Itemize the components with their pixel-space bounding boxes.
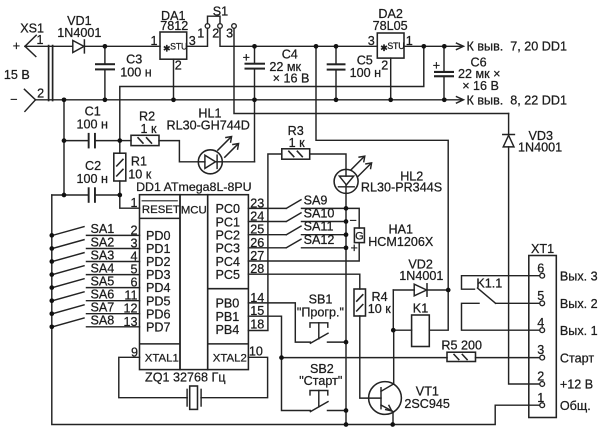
svg-text:SA11: SA11 [304, 220, 334, 234]
label R3 [288, 124, 306, 150]
svg-text:PD5: PD5 [146, 294, 171, 308]
label C2 [77, 159, 109, 186]
svg-text:1: 1 [406, 34, 413, 48]
voltage regulator DA2 78L05 [377, 33, 404, 58]
label SB1 Progr [297, 293, 344, 320]
switch S1 contacts [205, 24, 236, 29]
XT1 terminal labels [560, 269, 598, 413]
svg-text:28: 28 [250, 262, 264, 276]
wire pin 18 up long vertical to R3 [248, 154, 281, 331]
label R4 [368, 290, 392, 316]
relay contact K1.1 pin 6 wire [462, 276, 540, 290]
svg-text:2: 2 [381, 59, 388, 73]
label DD1 ATmega8L-8PU [136, 180, 251, 194]
svg-text:1N4001: 1N4001 [57, 26, 101, 40]
wire C2 line from SA bus corner to RESET node [52, 194, 120, 196]
wire XT1 pin 5 [496, 302, 540, 304]
junction dots ground rail [62, 97, 447, 102]
label VT1 2SC945 [404, 384, 450, 411]
label R5 200 [441, 339, 482, 353]
svg-text:C3: C3 [126, 53, 142, 67]
svg-text:ZQ1 32768 Гц: ZQ1 32768 Гц [145, 371, 226, 385]
label SB2 Start [299, 362, 342, 388]
terminal block XT1 [529, 256, 557, 418]
wire C4 vertical and down to HL1 cathode [254, 46, 256, 162]
svg-text:PD7: PD7 [146, 320, 171, 334]
resistor R1 10k [114, 153, 126, 181]
switch SA2 [53, 240, 140, 249]
svg-text:2: 2 [37, 87, 44, 101]
crystal ZQ1 32768 Hz [187, 386, 201, 409]
svg-text:2: 2 [537, 370, 544, 384]
button SB1 actuator [310, 323, 328, 339]
svg-text:K1: K1 [413, 302, 428, 316]
button SB2 wiring from pin 15 [248, 316, 346, 411]
wire VT1 emitter to ground return [392, 412, 394, 425]
svg-text:RL30-GH744D: RL30-GH744D [167, 118, 250, 132]
svg-text:4: 4 [130, 250, 137, 264]
wire S1 contact 3 down and right to VD3 [234, 28, 509, 113]
svg-text:11: 11 [124, 289, 137, 303]
svg-text:100 н: 100 н [350, 66, 382, 80]
switch SA11 pin 25 [248, 226, 346, 235]
junction dot start line [279, 355, 284, 360]
svg-text:× 16 В: × 16 В [462, 79, 499, 93]
label C6 [433, 56, 501, 94]
LED HL2 emission arrows [351, 156, 372, 177]
svg-text:4: 4 [537, 316, 544, 330]
svg-text:PB0: PB0 [216, 297, 240, 311]
label S1 [197, 5, 233, 41]
wire +5V rail DA2 pin 1 to arrow K vyv 7,20 [404, 43, 464, 49]
label R1 [128, 155, 152, 182]
wire +12V feed from rail down at x=316 right to K1/VD2 [316, 46, 448, 290]
svg-text:3: 3 [189, 34, 196, 48]
svg-text:26: 26 [250, 236, 264, 250]
junction dots SA bus [49, 233, 54, 329]
svg-text:1: 1 [537, 391, 544, 405]
wire +5V sub-line from rail down at x=423.8 left to R1/R2 vertical [120, 46, 424, 140]
svg-text:10 к: 10 к [368, 302, 392, 316]
svg-text:XTAL1: XTAL1 [145, 353, 179, 365]
svg-text:1 к: 1 к [289, 136, 306, 150]
label C5 [350, 54, 382, 81]
svg-text:C2: C2 [85, 159, 101, 173]
label VD2 [399, 257, 443, 283]
svg-text:SA1: SA1 [91, 222, 115, 236]
svg-text:7812: 7812 [160, 19, 188, 33]
svg-text:HCM1206X: HCM1206X [368, 235, 434, 249]
wire R3 to HL2 anode [310, 154, 346, 169]
wire R1 stubs [119, 141, 121, 195]
wire DA2 pin 2 to ground [390, 58, 392, 100]
switch SA4 [53, 266, 140, 275]
svg-text:PD4: PD4 [146, 281, 171, 295]
svg-text:SA12: SA12 [304, 233, 335, 247]
wire SA common bus and bottom ground return to XT1 pin 1 [52, 195, 540, 425]
svg-text:Вых. 1: Вых. 1 [560, 324, 598, 338]
svg-text:6: 6 [537, 261, 544, 275]
svg-text:R5 200: R5 200 [441, 339, 482, 353]
svg-text:PC2: PC2 [216, 229, 241, 243]
svg-text:К выв. 8, 22 DD1: К выв. 8, 22 DD1 [467, 93, 567, 107]
junction dots C1 C2 R1 nodes [62, 138, 123, 197]
buzzer HA1 HCM1206X [354, 228, 364, 243]
wire pin 27 to HA1 plus terminal [248, 243, 359, 261]
label DA2 78L05 [368, 7, 413, 73]
svg-text:1: 1 [197, 26, 204, 40]
svg-text:2: 2 [212, 26, 219, 40]
svg-text:SA4: SA4 [91, 261, 115, 275]
wire +12V input from XS1 pin 1 to VD1 and DA1 pin 1 [25, 45, 160, 47]
label K vyv 7 20 DD1 [467, 40, 567, 54]
svg-text:−: − [10, 93, 17, 107]
svg-text:23: 23 [250, 196, 264, 210]
svg-text:× 16 В: × 16 В [273, 72, 310, 86]
switch SA12 pin 26 [248, 239, 346, 248]
svg-text:9: 9 [131, 345, 138, 359]
svg-text:+: + [243, 50, 250, 64]
svg-text:5: 5 [537, 289, 544, 303]
svg-text:1: 1 [130, 196, 137, 210]
junction dots HL2 bus [344, 206, 349, 427]
label DA1 7812 [150, 9, 195, 73]
labels SA1-SA8 [91, 222, 115, 327]
svg-text:1N4001: 1N4001 [518, 140, 562, 154]
svg-text:PB4: PB4 [216, 323, 240, 337]
connector XS1 board edge double bar [49, 46, 53, 101]
svg-text:6: 6 [130, 276, 137, 290]
svg-text:15: 15 [250, 304, 264, 318]
svg-text:3: 3 [226, 26, 233, 40]
label VD3 [518, 129, 562, 155]
switch SA10 pin 24 [248, 213, 346, 222]
XT1 pin contacts [540, 273, 545, 407]
svg-text:2: 2 [175, 59, 182, 73]
svg-text:К выв. 7, 20 DD1: К выв. 7, 20 DD1 [467, 40, 567, 54]
label HA1 HCM1206X [349, 213, 433, 255]
button SB2 actuator [310, 391, 328, 407]
switch SA9 pin 23 [248, 200, 346, 209]
svg-text:SA6: SA6 [91, 288, 115, 302]
label MCU [181, 204, 207, 216]
svg-text:MCU: MCU [181, 204, 207, 216]
svg-text:PC4: PC4 [216, 255, 241, 269]
svg-text:27: 27 [250, 249, 264, 263]
capacitor C1 100n [88, 133, 96, 149]
svg-text:5: 5 [130, 263, 137, 277]
svg-text:100 н: 100 н [77, 117, 109, 131]
wire Start line through R5 to XT1 pin 3 [282, 357, 540, 359]
svg-text:3: 3 [368, 34, 375, 48]
capacitor C3 100n [95, 63, 115, 70]
right pin numbers [249, 196, 264, 358]
label RESET with overline [142, 201, 180, 216]
svg-text:PD0: PD0 [146, 229, 171, 243]
label VD1 [57, 14, 101, 40]
svg-text:SA10: SA10 [304, 207, 335, 221]
svg-text:SA3: SA3 [91, 248, 115, 262]
diode VD2 1N4001 [414, 284, 427, 296]
svg-text:10: 10 [249, 344, 263, 358]
wire HL2 cathode bus down to ground return [345, 193, 347, 424]
svg-text:PC0: PC0 [216, 202, 241, 216]
LED HL1 RL30-GH744D [198, 150, 222, 174]
svg-text:1: 1 [37, 33, 44, 47]
svg-text:"Прогр.": "Прогр." [297, 306, 344, 320]
svg-text:XT1: XT1 [531, 242, 554, 256]
wire XTAL2 pin 10 to crystal [201, 357, 268, 397]
relay contact K1.1 blade [478, 288, 496, 303]
label XS1 [4, 21, 44, 106]
svg-text:C1: C1 [85, 104, 101, 118]
svg-text:3: 3 [537, 343, 544, 357]
wire C5 vertical [335, 46, 337, 100]
LED HL1 emission arrows [218, 137, 239, 158]
junction dots top rail [103, 44, 447, 49]
svg-text:SA8: SA8 [91, 314, 115, 328]
svg-text:78L05: 78L05 [373, 19, 408, 33]
wire DA1 pin 3 to S1 contact 1 [187, 28, 208, 46]
relay coil K1 [412, 315, 430, 347]
svg-text:2SC945: 2SC945 [404, 397, 450, 411]
wire pin 28 to R4 [248, 274, 359, 289]
capacitor C6 22uF electrolytic [434, 71, 454, 77]
svg-text:+: + [13, 39, 20, 53]
LED HL2 RL30-PR344S [334, 169, 358, 193]
svg-text:18: 18 [250, 318, 264, 332]
label XT1 [531, 242, 554, 256]
svg-text:100 н: 100 н [120, 66, 152, 80]
svg-text:SA5: SA5 [91, 274, 115, 288]
label HL1 [167, 107, 250, 133]
svg-text:DD1 ATmega8L-8PU: DD1 ATmega8L-8PU [136, 180, 251, 194]
wire C3 vertical [104, 46, 106, 100]
label ZQ1 32768 Hz [145, 371, 226, 385]
wire R4 to VT1 base [360, 316, 381, 398]
XT1 pin numbers [537, 261, 544, 405]
svg-text:Старт: Старт [560, 351, 594, 365]
svg-text:RESET: RESET [142, 204, 180, 216]
switch SA3 [53, 253, 140, 262]
diode VD1 1N4001 [73, 40, 85, 53]
switch SA1 [53, 227, 140, 236]
wire VT1 collector to K1/VD2 node [393, 330, 395, 384]
wire R2 to HL1 LED and up to ground rail [120, 141, 255, 162]
svg-text:RL30-PR344S: RL30-PR344S [361, 181, 442, 195]
labels PC0-PC5 PB0 PB1 PB4 [216, 202, 241, 337]
resistor R4 10k [354, 289, 366, 316]
wire XTAL1 pin 9 to crystal [119, 357, 187, 397]
svg-text:−: − [349, 213, 356, 227]
wire DA1 pin 2 to ground [173, 59, 175, 100]
label R2 [139, 110, 157, 136]
svg-text:SA7: SA7 [91, 301, 115, 315]
wire RESET pin 1 into DD1 [120, 195, 140, 208]
label K vyv 8 22 DD1 [467, 93, 567, 107]
svg-text:25: 25 [250, 223, 264, 237]
label C1 [77, 104, 109, 131]
svg-text:15 В: 15 В [4, 68, 30, 82]
svg-text:+12 В: +12 В [560, 378, 593, 392]
svg-text:PD2: PD2 [146, 255, 171, 269]
switch SA6 [53, 292, 140, 301]
svg-text:"Старт": "Старт" [299, 374, 342, 388]
capacitor C2 100n [88, 187, 96, 203]
switch SA8 [53, 318, 140, 327]
label C3 [120, 53, 152, 80]
wire ground vertical x=64 with C1 C2 left plates [64, 100, 120, 195]
svg-text:PD3: PD3 [146, 268, 171, 282]
wire VD2 anode node and K1 coil connections [393, 290, 448, 330]
svg-text:PC1: PC1 [216, 215, 241, 229]
svg-text:PD6: PD6 [146, 307, 171, 321]
label C4 [243, 48, 310, 86]
wire XT1 pin 4 to K1.1 lower contact [462, 303, 540, 330]
svg-text:SA9: SA9 [304, 193, 328, 207]
svg-text:1: 1 [150, 34, 157, 48]
wire S1 contact 2 down to +12V rail toward DA2 pin 3 [220, 28, 377, 46]
wire HA1 minus terminal to bus at SA9 [346, 208, 359, 228]
button SB1 wiring from pin 14 [248, 303, 346, 343]
resistor R2 1k [131, 135, 159, 145]
microcontroller DD1 ATmega8L-8PU body [140, 195, 249, 370]
svg-text:+: + [350, 241, 357, 255]
resistor R5 200 [447, 352, 476, 361]
voltage regulator DA1 7812 [160, 32, 187, 59]
capacitor C5 100n [327, 63, 346, 70]
svg-text:SB1: SB1 [309, 293, 333, 307]
svg-text:Общ.: Общ. [560, 399, 591, 413]
left pin numbers [123, 196, 138, 359]
wire VD3 branch down to XT1 pin 2 [509, 114, 540, 385]
svg-text:PD1: PD1 [146, 242, 171, 256]
transistor VT1 2SC945 [369, 382, 402, 415]
svg-text:XTAL2: XTAL2 [213, 353, 247, 365]
svg-text:100 н: 100 н [77, 172, 109, 186]
switch S1 bracket [208, 16, 221, 23]
svg-text:S1: S1 [213, 5, 228, 19]
svg-text:12: 12 [123, 302, 137, 316]
svg-text:PC5: PC5 [216, 268, 241, 282]
labels PD0-PD7 [146, 229, 171, 334]
wire C6 vertical [443, 46, 445, 100]
wire ground rail from XS1 pin 2 to arrow K vyv 8,22 [36, 97, 464, 103]
switch SA7 [53, 305, 140, 314]
svg-text:13: 13 [123, 315, 137, 329]
svg-text:1 к: 1 к [141, 122, 158, 136]
svg-text:2: 2 [130, 223, 137, 237]
label HL2 [361, 169, 442, 194]
resistor R3 1k [282, 149, 310, 159]
svg-text:Вых. 3: Вых. 3 [560, 269, 598, 283]
svg-text:1N4001: 1N4001 [399, 269, 443, 283]
svg-text:14: 14 [250, 291, 264, 305]
labels XTAL1 XTAL2 [145, 353, 247, 365]
svg-text:3: 3 [130, 237, 137, 251]
label K1 [413, 302, 428, 316]
labels SA9-SA12 [304, 193, 335, 246]
connector XS1 pin 1 [25, 35, 36, 56]
svg-text:K1.1: K1.1 [476, 276, 502, 290]
svg-text:+: + [433, 59, 440, 73]
diode VD3 1N4001 vertical [503, 135, 515, 147]
junction dots K1 VD2 VT1 [390, 288, 450, 427]
svg-text:PC3: PC3 [216, 242, 241, 256]
svg-text:Вых. 2: Вых. 2 [560, 297, 598, 311]
switch SA5 [53, 279, 140, 288]
capacitor C4 22uF electrolytic [245, 63, 266, 70]
svg-text:PB1: PB1 [216, 310, 240, 324]
label K1.1 [476, 276, 502, 290]
svg-text:SA2: SA2 [91, 235, 115, 249]
svg-text:24: 24 [250, 210, 264, 224]
connector XS1 pin 2 [24, 89, 35, 111]
